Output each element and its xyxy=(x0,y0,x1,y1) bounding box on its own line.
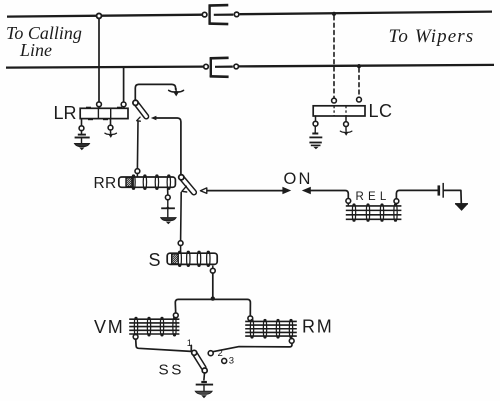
arrowhead into LR armature xyxy=(151,116,157,120)
battery under RR xyxy=(161,188,175,217)
label RM xyxy=(302,317,334,337)
wire: dashed lower line to LC xyxy=(358,68,360,97)
ground under LC left xyxy=(309,116,322,149)
wire: LR armature contact to RR armature xyxy=(156,118,181,174)
node: RM top terminal xyxy=(248,316,253,322)
label S xyxy=(149,250,161,270)
contact 2 xyxy=(208,351,213,356)
wire: calling line upper conductor, right segment xyxy=(240,12,492,15)
switch contact (RR armature) xyxy=(178,174,197,195)
wire: battery to ground xyxy=(444,190,461,203)
node: S coil top terminal xyxy=(178,241,183,246)
svg-text:SS: SS xyxy=(159,362,184,379)
wire: S coil bottom stub xyxy=(212,266,214,268)
svg-text:VM: VM xyxy=(94,317,125,337)
wire: upper line to LR coil xyxy=(98,18,100,102)
label SS xyxy=(159,362,184,379)
svg-text:RR: RR xyxy=(94,175,117,192)
label VM xyxy=(94,317,125,337)
label LR xyxy=(54,103,77,123)
battery under LR xyxy=(75,119,90,143)
svg-text:2: 2 xyxy=(218,348,223,359)
wire: ON point to REL coil xyxy=(310,191,348,199)
wire: lower line to LR coil xyxy=(123,68,125,102)
ground under LR left xyxy=(74,143,89,150)
switch arm SS xyxy=(191,350,207,373)
arrow left (ON point) xyxy=(302,187,311,195)
wire: RR anvil down to S coil xyxy=(180,192,183,240)
label: To Wipers xyxy=(389,26,475,47)
ground under RR xyxy=(161,218,176,225)
node: REL right terminal xyxy=(394,199,399,206)
relay coil RR xyxy=(119,174,176,189)
svg-text:ON: ON xyxy=(284,170,313,188)
svg-text:LC: LC xyxy=(369,101,393,121)
jack J2 (lower line spring jack) xyxy=(204,58,239,77)
svg-text:1: 1 xyxy=(187,338,192,349)
relay coil S xyxy=(167,251,217,267)
label: To Calling Line xyxy=(6,23,82,60)
arrow right (ON point) xyxy=(282,187,291,195)
label contact 1 xyxy=(187,338,192,349)
battery B1 xyxy=(439,183,443,198)
relay coil RM xyxy=(245,319,297,339)
ground under SS xyxy=(195,382,213,398)
wire: dashed upper line to LC xyxy=(333,16,335,98)
node: VM bottom terminal xyxy=(133,334,138,339)
wire: RR armature to ON point xyxy=(207,190,283,192)
wire: calling line lower conductor, right segment xyxy=(239,65,494,67)
svg-text:3: 3 xyxy=(229,356,234,367)
relay coil LC xyxy=(313,106,365,116)
node: junction ring on upper line xyxy=(97,13,102,18)
wire: SS arm to ground xyxy=(203,373,206,380)
contact 1 tick xyxy=(190,345,192,350)
open arrowhead into RR armature xyxy=(200,188,206,194)
node: LC top terminal 2 xyxy=(357,97,362,102)
node: VM top terminal xyxy=(173,313,178,320)
node: junction dot on upper line xyxy=(332,12,336,16)
contact 3 xyxy=(222,358,227,363)
label ON xyxy=(284,170,313,188)
wire: LR anvil down to RR coil xyxy=(136,122,139,169)
ground under LR right xyxy=(105,119,117,138)
node: branch junction xyxy=(211,296,215,300)
node: RR coil top terminal xyxy=(135,169,140,174)
wire: LR armature to ground curl xyxy=(135,84,175,100)
node: junction dot on lower line xyxy=(357,64,361,68)
svg-text:REL: REL xyxy=(356,191,391,203)
ground at curl end xyxy=(169,89,184,97)
svg-text:LR: LR xyxy=(54,103,77,123)
svg-text:Line: Line xyxy=(19,40,52,60)
node: REL left terminal xyxy=(346,199,351,207)
node: S coil bottom terminal xyxy=(210,268,215,273)
label LC xyxy=(369,101,393,121)
relay coil LR xyxy=(80,102,128,120)
wire: branch to VM xyxy=(175,299,213,313)
relay coil REL xyxy=(346,203,402,221)
svg-text:RM: RM xyxy=(302,317,334,337)
jack J1 (upper line spring jack) xyxy=(202,5,239,24)
wire: terminal stub into S coil xyxy=(180,246,182,253)
wire: RM to contact 2 of SS xyxy=(213,343,292,351)
ground at battery xyxy=(455,204,468,211)
contact anvil at LR armature xyxy=(137,117,141,121)
wire: calling line lower conductor, left segment xyxy=(6,67,204,68)
label contact 3 xyxy=(229,356,234,367)
label REL xyxy=(356,191,391,203)
wire: calling line upper conductor, left segment xyxy=(7,15,203,17)
node: LC top terminal 1 xyxy=(332,98,337,103)
wire: REL to battery xyxy=(396,190,437,198)
node: RM bottom terminal xyxy=(289,336,294,343)
wire: VM to contact 1 of SS xyxy=(136,339,191,351)
ground under LC right xyxy=(340,116,352,136)
label contact 2 xyxy=(218,348,223,359)
label RR xyxy=(94,175,117,192)
svg-text:To Wipers: To Wipers xyxy=(389,26,475,47)
svg-text:S: S xyxy=(149,250,161,270)
wire: S coil to branch junction xyxy=(212,273,214,296)
wire: branch to RM xyxy=(213,299,251,315)
relay coil VM xyxy=(129,317,179,337)
switch contact (LR armature) xyxy=(133,100,150,120)
contact anvil at RR armature xyxy=(182,186,187,192)
wire: terminal stub into RR coil xyxy=(136,173,138,176)
